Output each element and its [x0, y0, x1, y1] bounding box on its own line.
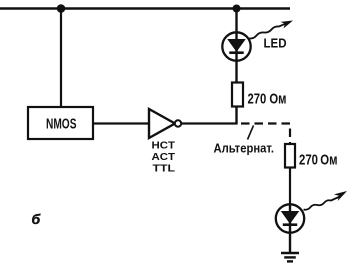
svg-text:ACT: ACT	[152, 151, 176, 163]
resistor R1 body	[232, 83, 243, 107]
light arrow head for D1	[281, 21, 293, 29]
wire: rail down to NMOS box	[60, 9, 62, 108]
light arrow from D1 (squiggle)	[249, 23, 288, 39]
svg-text:HCT: HCT	[152, 139, 176, 151]
svg-text:Альтернат.: Альтернат.	[214, 140, 275, 155]
svg-text:б: б	[32, 211, 41, 227]
svg-text:NMOS: NMOS	[46, 117, 77, 133]
resistor R2 body	[285, 144, 295, 168]
LED D1 cathode bar	[229, 51, 243, 54]
inverter U2 output bubble	[175, 120, 181, 126]
ground symbol	[281, 253, 299, 261]
node: junction at LED branch	[233, 5, 241, 13]
LED D2 diode triangle	[282, 212, 299, 224]
LED D2 cathode bar	[283, 223, 297, 226]
pointer line from label to dashed wire	[248, 126, 254, 140]
light arrow head for D2	[334, 191, 347, 201]
wire: R2 to LED D2	[289, 168, 291, 207]
inverter U2 triangle	[149, 109, 175, 138]
light arrow from D2 (squiggle)	[304, 196, 342, 210]
wire: top power rail	[0, 7, 290, 9]
svg-text:270 Ом: 270 Ом	[299, 152, 338, 169]
LED D2 circle	[276, 204, 304, 232]
node: junction dot at NMOS branch	[57, 4, 66, 13]
svg-text:TTL: TTL	[153, 162, 176, 174]
wire: through LED D2	[289, 206, 291, 253]
svg-text:270 Ом: 270 Ом	[248, 90, 287, 107]
block U1 NMOS	[28, 107, 93, 139]
LED D1 circle	[222, 32, 250, 60]
wire: dashed alternate connection	[241, 124, 290, 147]
wire: NMOS output to inverter input	[93, 122, 148, 124]
wire: inverter output to LED branch	[181, 122, 238, 124]
svg-text:LED: LED	[264, 37, 287, 51]
LED D1 diode triangle	[228, 40, 245, 52]
wire: LED branch vertical (rail to output node)	[235, 9, 237, 124]
